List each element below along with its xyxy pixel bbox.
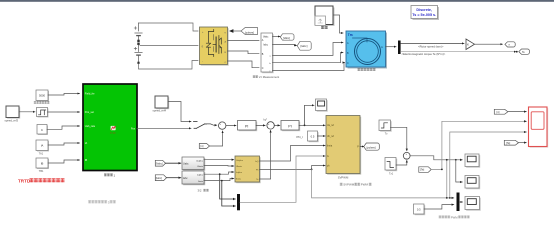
wire PI1 to sum2 [256, 124, 265, 126]
svg-text:+: + [268, 122, 270, 126]
wire from-n to red scope port1 [508, 111, 526, 113]
DC voltage source V1 [134, 23, 142, 42]
svg-text:+: + [219, 122, 221, 126]
wire mux1 to SVPWM port4 [240, 156, 325, 202]
bus selector [398, 41, 401, 55]
wire clarke2 out1 to transform port3 + branch to mux1 [204, 172, 234, 174]
PMSM motor block [346, 31, 387, 71]
PI controller 1 [238, 121, 258, 132]
svg-text:C: C [347, 62, 349, 65]
sum1 [219, 122, 226, 131]
powergui block [411, 6, 439, 21]
scope Tz [379, 120, 392, 136]
svg-text:[pulses]: [pulses] [245, 30, 254, 34]
wire theta vertical to red scope port3 [450, 132, 527, 198]
DC voltage source V2 [134, 43, 142, 64]
wire 5000 to green port1 [48, 94, 80, 96]
goto tag [Vabc] [273, 34, 295, 40]
svg-text:Ualpha: Ualpha [236, 160, 244, 162]
wire DC- to bridge [139, 61, 199, 70]
goto tag [n] top [475, 42, 516, 47]
wire subsystem to motor Tm [333, 15, 343, 33]
svg-text:speed_ref3: speed_ref3 [5, 118, 19, 122]
svg-text:IB: IB [41, 161, 44, 165]
clarke transform 2 (current 3/2) [182, 171, 205, 185]
svg-text:PI: PI [245, 125, 248, 129]
wire 0.3 to mux2 bottom [424, 205, 454, 209]
constant IB [36, 158, 49, 173]
wire sum2 to PI2 [274, 124, 280, 126]
svg-text:Discrete,: Discrete, [416, 8, 432, 12]
svg-text:[Vabc]: [Vabc] [283, 37, 290, 40]
gain K [466, 39, 475, 50]
wire bridge A to measurement A [228, 40, 260, 42]
svg-text:Phi_r: Phi_r [297, 135, 304, 139]
wire 0.5 to SVPWM port2 [318, 135, 326, 137]
svg-text:PWM: PWM [361, 183, 369, 187]
svg-text:[Iabc]: [Iabc] [301, 44, 308, 48]
sum3 [403, 152, 410, 160]
SVPWM block [326, 116, 371, 187]
sum2 [267, 122, 274, 131]
svg-text:Pos: Pos [131, 128, 136, 131]
wire measurement b to motor B [273, 53, 344, 63]
svg-text:[n]: [n] [497, 110, 500, 114]
wire bus out1 to gain [401, 42, 464, 44]
svg-text:speed_ref4: speed_ref4 [153, 109, 167, 113]
svg-text:[Te]: [Te] [420, 168, 424, 172]
svg-text:Ts = 5e-005 s.: Ts = 5e-005 s. [412, 13, 436, 17]
svg-text:[pulses]: [pulses] [367, 145, 376, 149]
constant C [37, 125, 48, 136]
from tag [Te] right [504, 140, 518, 145]
label 3/2 transform [198, 189, 209, 193]
wire Ph branch down right to mux2 top (long) [312, 169, 450, 198]
rate limiter block [37, 108, 49, 118]
wire mux2 to display3 [460, 201, 463, 203]
wire Tz to sum3 top [391, 127, 407, 151]
svg-text:TRTD: TRTD [18, 178, 31, 183]
from tag [Te] mid [419, 167, 431, 173]
from tag [n] right [494, 109, 508, 114]
from tag [pulses] feeding bridge gate [229, 28, 258, 35]
wire from-Iabc to clarke2 [167, 177, 181, 179]
svg-text:IA: IA [85, 142, 88, 145]
wire into mux2 top [450, 197, 454, 199]
from tag [Vabc] lower [155, 160, 165, 166]
svg-text:PWM: PWM [451, 215, 459, 219]
display scope 2 [465, 176, 480, 190]
wire sum1 to PI1 [226, 125, 236, 127]
svg-text:Ibeta: Ibeta [236, 178, 242, 181]
svg-text:Iabc: Iabc [263, 44, 268, 47]
wire bridge B to measurement B [228, 51, 260, 54]
display scope 1 [465, 154, 480, 168]
svg-text:IA: IA [41, 144, 44, 148]
svg-text:PI: PI [288, 125, 291, 129]
svg-text:0.5: 0.5 [311, 134, 315, 138]
red scope (4 input) [529, 107, 549, 148]
svg-text:Pos_set: Pos_set [85, 111, 94, 114]
svg-text:Tz1: Tz1 [389, 173, 394, 176]
svg-text:Uabc: Uabc [183, 162, 189, 165]
wire from-Vabc to clarke1 [166, 162, 181, 164]
constant IA [36, 140, 49, 155]
wire sum3 to display1 with branch to display2 [410, 156, 462, 160]
label under mux2 [439, 215, 470, 219]
svg-text:Tm: Tm [348, 33, 353, 37]
svg-text:<Electromagnetic torque Te (N*: <Electromagnetic torque Te (N*m)> [402, 52, 446, 56]
goto tag [Iabc] [273, 41, 312, 50]
signal builder speed_ref3 [5, 106, 21, 122]
svg-text:0.3: 0.3 [417, 207, 421, 211]
wire IA to green port4 [48, 143, 80, 145]
svg-text:TB1: TB1 [39, 170, 44, 173]
wire from-Te up to red scope port2 [432, 121, 526, 169]
svg-text:theta: theta [327, 145, 333, 148]
wire measurement a to motor A [273, 43, 344, 56]
PI controller 2 [281, 121, 300, 132]
svg-text:Ub_ref: Ub_ref [327, 135, 334, 138]
svg-text:Ua_ref: Ua_ref [327, 124, 334, 127]
wire clarke1 out1 to transform port1 [204, 159, 234, 161]
wire PI2 to SVPWM port1 with branch to scope1 [299, 124, 325, 126]
constant 0.3 [414, 204, 426, 215]
svg-text:Ubeta: Ubeta [236, 165, 243, 168]
svg-text:C: C [262, 67, 264, 70]
wire estimator Te out up to sum2 minus [260, 130, 271, 179]
svg-text:5000: 5000 [39, 94, 45, 98]
wire step to green port2 [48, 111, 80, 113]
svg-text:-: - [222, 127, 223, 131]
svg-text:IB: IB [85, 159, 88, 162]
svg-text:V-I Measurement: V-I Measurement [259, 75, 280, 79]
signal builder speed_ref4 [153, 96, 170, 113]
wire speed_ref3 to step block [19, 111, 35, 113]
svg-text:[Iabc]: [Iabc] [156, 177, 162, 180]
step block Tz1 [385, 158, 397, 176]
svg-text:[Vabc]: [Vabc] [156, 162, 163, 165]
svg-text:S_fun: S_fun [110, 133, 116, 135]
display scope 3 [465, 197, 481, 211]
wire green Pos to switch in2 [137, 127, 191, 129]
wire estimator IsQ out to SVPWM port3 [260, 146, 326, 162]
svg-text:IsQ: IsQ [255, 161, 259, 163]
wire clarke2 out2 to transform port4 + branch to mux1 [204, 179, 234, 181]
red annotation text [18, 178, 64, 183]
goto tag [pulses] lower [364, 143, 380, 150]
manual switch [194, 122, 207, 129]
svg-text:K: K [467, 43, 469, 47]
svg-text:m: m [381, 46, 383, 49]
load-torque subsystem [315, 6, 335, 29]
svg-text:3/2: 3/2 [198, 189, 202, 193]
wire SVPWM P to goto pulses [360, 146, 364, 148]
svg-text:Ubeta: Ubeta [197, 165, 204, 168]
svg-text:Ualpha: Ualpha [196, 160, 204, 162]
three-phase V-I measurement block [253, 33, 280, 79]
gray annotation text [88, 200, 116, 204]
wire C to green port3 [47, 126, 80, 129]
svg-text:Vabc: Vabc [263, 36, 269, 39]
wire switch to sum1 [205, 124, 217, 125]
wire bridge C to measurement C [228, 61, 260, 68]
svg-text:Ibeta: Ibeta [198, 180, 204, 183]
svg-text:SVPWM: SVPWM [338, 175, 349, 179]
svg-text:Ialpha: Ialpha [236, 172, 243, 174]
constant 5000 [34, 90, 50, 104]
wire motor m to bus selector [386, 46, 397, 48]
from tag [Iabc] lower [155, 175, 166, 181]
constant 0.5 (flux) [297, 131, 319, 142]
mux2 [457, 193, 460, 212]
svg-text:Ialpha: Ialpha [197, 174, 204, 176]
wire bus out2 to goto Te [401, 51, 516, 53]
green controller block [83, 84, 137, 177]
from tag [n] lower [199, 144, 209, 149]
svg-text:TA1: TA1 [39, 152, 44, 155]
universal bridge (inverter) [200, 27, 229, 66]
wire Tz1 to sum3 bottom [396, 160, 407, 165]
wire IB to green port5 [48, 160, 80, 163]
wire from-Te to red scope port4 [519, 142, 527, 144]
goto tag [Te] top [519, 49, 530, 54]
wire estimator Ph out to SVPWM port5 + branch down [260, 166, 326, 170]
wire DC mid to bridge [140, 45, 198, 47]
flux/torque estimator block (yellow) [235, 156, 261, 183]
wire clarke1 out2 to transform port2 [204, 165, 234, 168]
toolbar bottom edge [0, 0, 554, 2]
wire DC+ to bridge [139, 23, 199, 31]
svg-text:Iabc: Iabc [183, 177, 188, 180]
svg-text:[n]: [n] [201, 144, 204, 148]
scope1 [316, 99, 328, 112]
svg-text:<Rotor speed (wm)>: <Rotor speed (wm)> [418, 45, 444, 49]
wire measurement c to motor C [273, 63, 345, 71]
svg-text:[Te]: [Te] [506, 141, 510, 145]
svg-text:Uab_rate: Uab_rate [85, 125, 96, 128]
mux1 [237, 194, 240, 210]
clarke transform 1 (voltage 3/2) [182, 157, 205, 171]
svg-text:Field_fre: Field_fre [85, 93, 95, 96]
svg-text:SVPWM: SVPWM [343, 183, 355, 187]
wire speed_ref4 to switch in1 [168, 102, 191, 122]
wire from-n to sum1 bottom [210, 131, 223, 146]
